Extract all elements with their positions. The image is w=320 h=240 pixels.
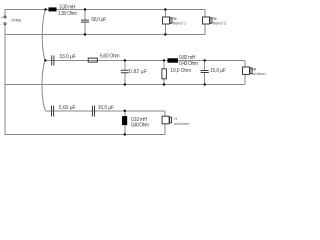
svg-text:0,40 Ohm: 0,40 Ohm bbox=[131, 122, 149, 128]
svg-text:ochtöner: ochtöner bbox=[174, 122, 191, 126]
svg-text:3,30 mH: 3,30 mH bbox=[59, 4, 76, 10]
svg-text:+: + bbox=[1, 15, 4, 20]
svg-text:0,43 Ohm: 0,43 Ohm bbox=[179, 61, 198, 67]
svg-text:ftöner 2: ftöner 2 bbox=[213, 21, 227, 25]
svg-text:0,82 µF: 0,82 µF bbox=[129, 69, 147, 75]
svg-text:teltöner: teltöner bbox=[252, 72, 267, 76]
svg-text:ftöner 1: ftöner 1 bbox=[173, 21, 187, 25]
svg-text:5,60 Ohm: 5,60 Ohm bbox=[100, 53, 120, 59]
svg-text:H: H bbox=[174, 117, 177, 121]
svg-text:1,50 Ohm: 1,50 Ohm bbox=[58, 11, 77, 17]
svg-text:5,60 µF: 5,60 µF bbox=[59, 105, 76, 111]
svg-text:Mit: Mit bbox=[252, 67, 256, 71]
svg-text:-: - bbox=[1, 21, 3, 26]
svg-text:10,0 µF: 10,0 µF bbox=[98, 105, 115, 111]
svg-text:Amp: Amp bbox=[11, 17, 21, 22]
svg-text:33,0 µF: 33,0 µF bbox=[59, 54, 76, 60]
svg-text:10,0 Ohm: 10,0 Ohm bbox=[170, 68, 191, 74]
svg-text:56,0 µF: 56,0 µF bbox=[91, 17, 106, 23]
svg-text:Tie: Tie bbox=[213, 17, 217, 21]
svg-text:15,0 µF: 15,0 µF bbox=[210, 68, 226, 74]
svg-text:Tie: Tie bbox=[173, 17, 177, 21]
